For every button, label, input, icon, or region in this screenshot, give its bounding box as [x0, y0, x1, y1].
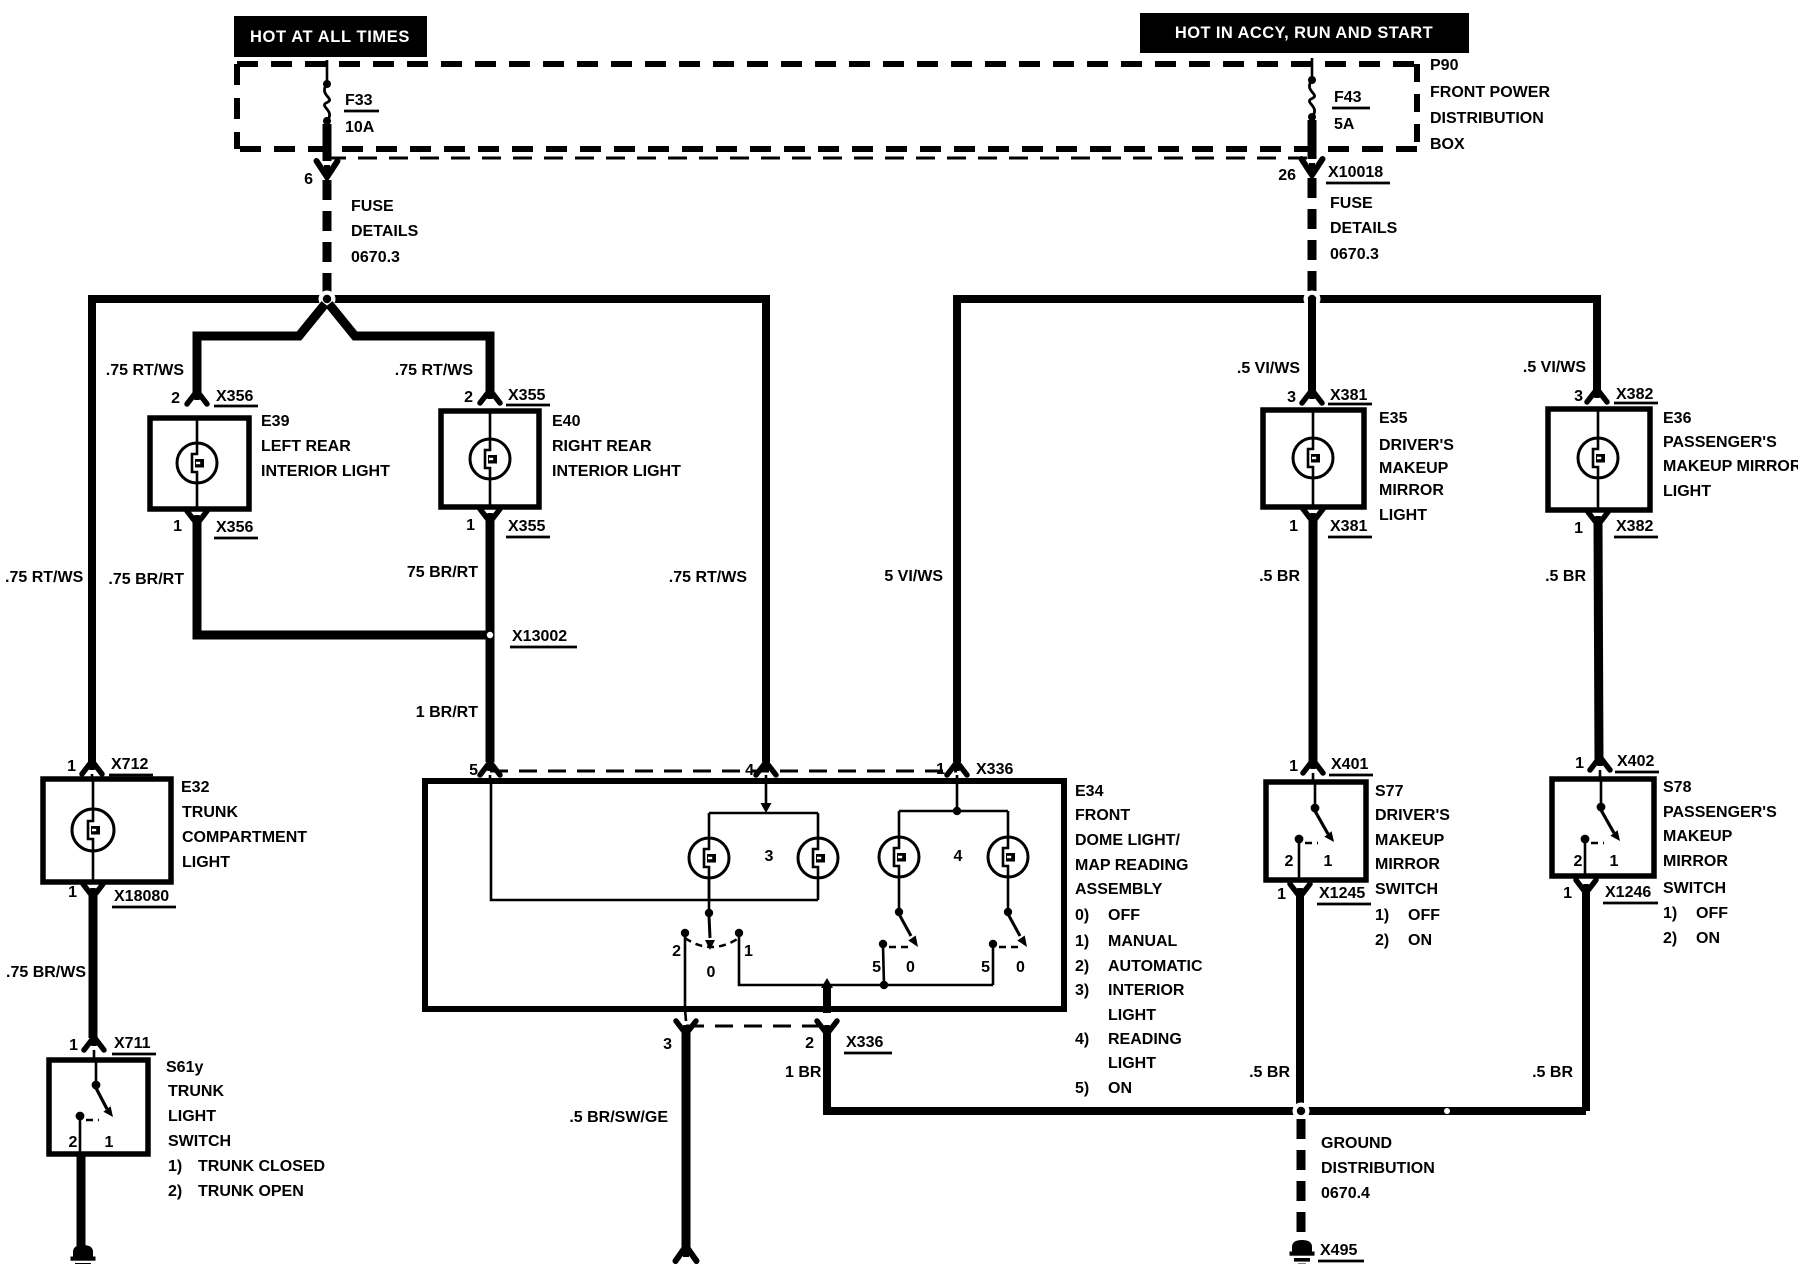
svg-text:X355: X355 — [508, 387, 545, 404]
svg-text:HOT AT ALL TIMES: HOT AT ALL TIMES — [250, 28, 410, 46]
svg-text:3): 3) — [1075, 982, 1089, 999]
svg-text:6: 6 — [304, 171, 313, 188]
wire drop to dome pin 1 — [953, 295, 961, 762]
wire reading sw1 drop — [883, 946, 884, 985]
svg-text:DETAILS: DETAILS — [351, 223, 419, 240]
ground distribution label — [1321, 1135, 1435, 1202]
switch S77 — [1266, 782, 1366, 880]
svg-text:3: 3 — [663, 1036, 672, 1053]
switch S61y — [49, 1060, 148, 1154]
svg-text:1): 1) — [1075, 933, 1089, 950]
node reading switch junction — [880, 981, 888, 989]
wire pin3 to bottom — [682, 1030, 691, 1250]
svg-text:MIRROR: MIRROR — [1375, 856, 1440, 873]
fuse details left label — [351, 198, 419, 266]
power label HOT IN ACCY, RUN AND START — [1140, 13, 1469, 53]
svg-text:1: 1 — [69, 1037, 78, 1054]
svg-text:X495: X495 — [1320, 1242, 1357, 1259]
svg-text:4: 4 — [745, 762, 754, 779]
svg-text:0670.3: 0670.3 — [351, 249, 400, 266]
svg-text:2: 2 — [69, 1134, 78, 1151]
svg-text:.75 RT/WS: .75 RT/WS — [395, 362, 474, 379]
svg-text:2): 2) — [1663, 930, 1677, 947]
svg-text:S61y: S61y — [166, 1059, 203, 1076]
dome light assembly E34 box — [425, 781, 1064, 1009]
svg-text:MANUAL: MANUAL — [1108, 933, 1178, 950]
E35 label — [1379, 410, 1454, 524]
svg-text:MAKEUP: MAKEUP — [1663, 828, 1733, 845]
F33 value label — [344, 92, 379, 136]
svg-text:2: 2 — [805, 1035, 814, 1052]
reading lamp 1 — [879, 837, 919, 877]
svg-text:TRUNK CLOSED: TRUNK CLOSED — [198, 1158, 325, 1175]
svg-text:PASSENGER'S: PASSENGER'S — [1663, 804, 1777, 821]
lamp E35 — [1263, 410, 1364, 507]
wire F33 lead-in — [326, 60, 329, 84]
svg-text:P90: P90 — [1430, 57, 1459, 74]
X336 pin 2 connector — [805, 1021, 892, 1053]
svg-text:X382: X382 — [1616, 518, 1653, 535]
svg-text:TRUNK: TRUNK — [168, 1083, 224, 1100]
dome lamp 1 — [689, 838, 729, 878]
svg-text:SWITCH: SWITCH — [168, 1133, 231, 1150]
svg-text:X10018: X10018 — [1328, 164, 1383, 181]
svg-text:E40: E40 — [552, 413, 581, 430]
connector X382 pin 3 — [1574, 386, 1658, 405]
svg-text:READING: READING — [1108, 1031, 1182, 1048]
connector X401 — [1289, 756, 1373, 782]
svg-text:X336: X336 — [976, 761, 1013, 778]
svg-text:2: 2 — [464, 389, 473, 406]
svg-text:LIGHT: LIGHT — [1663, 483, 1711, 500]
svg-text:.5 VI/WS: .5 VI/WS — [1523, 359, 1586, 376]
svg-text:E36: E36 — [1663, 410, 1692, 427]
pin 6 connector — [304, 161, 337, 188]
svg-text:X1245: X1245 — [1319, 885, 1365, 902]
fuse F33 — [323, 80, 331, 161]
svg-text:1: 1 — [1574, 520, 1583, 537]
node ground rail junction — [1293, 1103, 1310, 1120]
svg-text:RIGHT REAR: RIGHT REAR — [552, 438, 652, 455]
wire reading sw2 drop — [992, 944, 995, 985]
svg-text:X382: X382 — [1616, 386, 1653, 403]
svg-text:HOT IN ACCY, RUN AND START: HOT IN ACCY, RUN AND START — [1175, 24, 1433, 42]
svg-text:.5 VI/WS: .5 VI/WS — [1237, 360, 1300, 377]
wire E40 down to dome pin 5 — [486, 519, 495, 762]
X336 pin 3 connector — [663, 1009, 696, 1053]
svg-text:COMPARTMENT: COMPARTMENT — [182, 829, 307, 846]
connector X10018 dashed line — [327, 157, 1312, 160]
svg-text:1: 1 — [1563, 885, 1572, 902]
connector X336 top dashed line — [490, 770, 957, 773]
svg-text:DISTRIBUTION: DISTRIBUTION — [1430, 110, 1544, 127]
svg-text:MAKEUP: MAKEUP — [1379, 460, 1449, 477]
svg-text:F43: F43 — [1334, 89, 1362, 106]
svg-text:E32: E32 — [181, 779, 210, 796]
lamp E32 — [43, 779, 171, 882]
P90 label — [1430, 57, 1550, 153]
wire S78 to ground rail — [1582, 889, 1590, 1111]
X336 pin 1 connector — [936, 761, 1022, 781]
svg-text:X18080: X18080 — [114, 888, 169, 905]
wire E34 pin1 internal — [953, 781, 961, 815]
connector X18080 — [68, 884, 176, 907]
wire S61y to ground — [77, 1154, 86, 1247]
svg-text:MIRROR: MIRROR — [1379, 482, 1444, 499]
svg-text:X356: X356 — [216, 388, 253, 405]
svg-text:ON: ON — [1408, 932, 1432, 949]
svg-text:X381: X381 — [1330, 518, 1367, 535]
svg-text:PASSENGER'S: PASSENGER'S — [1663, 434, 1777, 451]
svg-text:ON: ON — [1696, 930, 1720, 947]
svg-text:MAKEUP: MAKEUP — [1375, 832, 1445, 849]
dome switch contact 2 — [681, 929, 689, 937]
wire drop to dome pin 4 — [762, 295, 770, 762]
svg-text:5: 5 — [872, 959, 881, 976]
svg-text:1 BR/RT: 1 BR/RT — [416, 704, 478, 721]
svg-text:26: 26 — [1278, 167, 1296, 184]
svg-text:X711: X711 — [114, 1035, 151, 1052]
connector X382 pin 1 — [1574, 512, 1658, 537]
svg-text:3: 3 — [765, 848, 774, 865]
wire left bus — [92, 295, 766, 303]
X336 pin 5 connector — [469, 762, 500, 781]
svg-text:1: 1 — [68, 884, 77, 901]
node splice marker — [1444, 1108, 1450, 1114]
svg-text:0670.4: 0670.4 — [1321, 1185, 1370, 1202]
svg-text:AUTOMATIC: AUTOMATIC — [1108, 958, 1203, 975]
wire fuse details right (dashed) — [1308, 178, 1317, 296]
lamp E36 — [1548, 409, 1650, 510]
svg-text:X1246: X1246 — [1605, 884, 1651, 901]
svg-text:1: 1 — [1575, 755, 1584, 772]
svg-text:DISTRIBUTION: DISTRIBUTION — [1321, 1160, 1435, 1177]
node junction left bus — [319, 291, 336, 308]
svg-text:MIRROR: MIRROR — [1663, 853, 1728, 870]
svg-text:.5 BR/SW/GE: .5 BR/SW/GE — [569, 1109, 668, 1126]
dome lamp 2 — [798, 838, 838, 878]
node tee to pin 2 — [821, 978, 833, 988]
connector X381 pin 3 — [1287, 387, 1372, 406]
svg-text:BOX: BOX — [1430, 136, 1465, 153]
wire left drop to E32 — [88, 295, 96, 765]
fuse F43 — [1308, 76, 1316, 159]
svg-text:1 BR: 1 BR — [785, 1064, 822, 1081]
svg-text:FRONT POWER: FRONT POWER — [1430, 84, 1550, 101]
svg-text:X13002: X13002 — [512, 628, 567, 645]
svg-text:X355: X355 — [508, 518, 545, 535]
E36 label — [1663, 410, 1798, 500]
E32 label — [181, 779, 307, 871]
connector X711 — [69, 1035, 156, 1060]
ground trunk switch — [73, 1245, 93, 1257]
svg-text:1): 1) — [1663, 905, 1677, 922]
svg-text:1: 1 — [466, 517, 475, 534]
svg-text:MAP READING: MAP READING — [1075, 857, 1189, 874]
X336 pin 4 connector — [745, 762, 776, 781]
pin 26 connector X10018 — [1278, 159, 1390, 184]
svg-text:X402: X402 — [1617, 753, 1654, 770]
svg-text:ASSEMBLY: ASSEMBLY — [1075, 881, 1163, 898]
svg-text:FUSE: FUSE — [351, 198, 394, 215]
connector X356 pin 2 — [171, 388, 258, 407]
wire S77 to ground rail — [1296, 893, 1304, 1111]
svg-text:.75 RT/WS: .75 RT/WS — [669, 569, 748, 586]
E34 label — [1075, 783, 1203, 1097]
connector X402 — [1575, 753, 1659, 779]
wire E34 dome top rail — [709, 812, 818, 815]
svg-text:5 VI/WS: 5 VI/WS — [884, 568, 943, 585]
reading lamp 2 — [988, 837, 1028, 877]
svg-text:LIGHT: LIGHT — [182, 854, 230, 871]
svg-text:TRUNK OPEN: TRUNK OPEN — [198, 1183, 304, 1200]
svg-text:LIGHT: LIGHT — [1108, 1007, 1156, 1024]
svg-text:1: 1 — [1289, 518, 1298, 535]
svg-text:.5 BR: .5 BR — [1545, 568, 1586, 585]
svg-text:2: 2 — [1285, 853, 1294, 870]
S78 label — [1663, 779, 1777, 947]
fuse details right label — [1330, 195, 1398, 263]
svg-text:2): 2) — [1075, 958, 1089, 975]
wire drop to E35 — [1308, 299, 1316, 393]
svg-text:1: 1 — [1277, 886, 1286, 903]
svg-text:.5 BR: .5 BR — [1249, 1064, 1290, 1081]
svg-text:SWITCH: SWITCH — [1375, 881, 1438, 898]
svg-text:5A: 5A — [1334, 116, 1355, 133]
S77 label — [1375, 783, 1450, 949]
svg-text:0: 0 — [1016, 959, 1025, 976]
svg-text:5: 5 — [469, 762, 478, 779]
dome switch contact 1 — [735, 929, 743, 937]
svg-text:1: 1 — [1610, 853, 1619, 870]
svg-text:5: 5 — [981, 959, 990, 976]
svg-text:LEFT REAR: LEFT REAR — [261, 438, 351, 455]
svg-text:1: 1 — [67, 758, 76, 775]
svg-text:S77: S77 — [1375, 783, 1404, 800]
svg-text:2: 2 — [672, 943, 681, 960]
svg-text:DETAILS: DETAILS — [1330, 220, 1398, 237]
svg-text:10A: 10A — [345, 119, 375, 136]
svg-text:.75 RT/WS: .75 RT/WS — [5, 569, 84, 586]
svg-text:0: 0 — [707, 964, 716, 981]
E40 label — [552, 413, 681, 480]
wire F43 lead-in — [1311, 58, 1314, 80]
node X13002 — [487, 628, 577, 647]
wire contact2 to pin3 — [684, 937, 687, 1011]
S61y label — [166, 1059, 325, 1200]
P90 front power distribution box (dashed) — [237, 64, 1417, 149]
svg-text:F33: F33 — [345, 92, 373, 109]
svg-text:2: 2 — [1574, 853, 1583, 870]
svg-text:INTERIOR LIGHT: INTERIOR LIGHT — [552, 463, 681, 480]
svg-text:1: 1 — [744, 943, 753, 960]
svg-text:4): 4) — [1075, 1031, 1089, 1048]
connector X356 pin 1 — [173, 511, 258, 538]
svg-text:OFF: OFF — [1696, 905, 1728, 922]
svg-text:1: 1 — [173, 518, 182, 535]
svg-text:1): 1) — [1375, 907, 1389, 924]
wire ground distribution (dashed) — [1297, 1119, 1306, 1240]
connector bottom page exit — [676, 1246, 697, 1261]
svg-text:INTERIOR LIGHT: INTERIOR LIGHT — [261, 463, 390, 480]
svg-text:.5 BR: .5 BR — [1532, 1064, 1573, 1081]
svg-text:DOME LIGHT/: DOME LIGHT/ — [1075, 832, 1180, 849]
connector X712 — [67, 756, 153, 779]
wire drop to E36 — [1593, 295, 1601, 393]
svg-text:GROUND: GROUND — [1321, 1135, 1392, 1152]
wire E39 to X13002 — [197, 521, 490, 635]
wire right bus — [957, 295, 1597, 303]
svg-text:OFF: OFF — [1108, 907, 1140, 924]
svg-text:1: 1 — [1289, 758, 1298, 775]
svg-text:X381: X381 — [1330, 387, 1367, 404]
svg-text:.75 RT/WS: .75 RT/WS — [106, 362, 185, 379]
svg-text:2): 2) — [1375, 932, 1389, 949]
svg-text:FUSE: FUSE — [1330, 195, 1373, 212]
dome switch common node — [705, 878, 713, 917]
wire pin2 to ground rail — [827, 1030, 1586, 1111]
svg-text:FRONT: FRONT — [1075, 807, 1130, 824]
node junction right bus — [1304, 291, 1321, 308]
wire E36 to X402 — [1598, 522, 1599, 762]
connector X1246 — [1563, 880, 1658, 903]
wire contact1 to inner rail — [739, 937, 993, 985]
svg-text:2: 2 — [171, 390, 180, 407]
wire E34 reading top rail — [899, 810, 1008, 813]
wire E35 to X401 — [1309, 519, 1318, 763]
svg-text:.75 BR/RT: .75 BR/RT — [108, 571, 184, 588]
svg-text:X356: X356 — [216, 519, 253, 536]
svg-text:5): 5) — [1075, 1080, 1089, 1097]
svg-text:E34: E34 — [1075, 783, 1104, 800]
svg-text:X336: X336 — [846, 1034, 883, 1051]
svg-text:1): 1) — [168, 1158, 182, 1175]
F43 value label — [1332, 89, 1370, 133]
svg-text:3: 3 — [1287, 389, 1296, 406]
wire Y-split to E40 — [329, 304, 490, 393]
switch S78 — [1552, 779, 1654, 876]
wire E34 pin5 internal — [491, 781, 818, 900]
svg-text:LIGHT: LIGHT — [1379, 507, 1427, 524]
svg-text:TRUNK: TRUNK — [182, 804, 238, 821]
svg-text:DRIVER'S: DRIVER'S — [1379, 437, 1454, 454]
dome switch arm — [705, 916, 715, 950]
svg-text:DRIVER'S: DRIVER'S — [1375, 807, 1450, 824]
svg-text:OFF: OFF — [1408, 907, 1440, 924]
svg-text:3: 3 — [1574, 388, 1583, 405]
svg-text:ON: ON — [1108, 1080, 1132, 1097]
svg-text:0670.3: 0670.3 — [1330, 246, 1379, 263]
wire E32 to X711 — [89, 893, 98, 1038]
svg-text:SWITCH: SWITCH — [1663, 880, 1726, 897]
svg-text:MAKEUP MIRROR: MAKEUP MIRROR — [1663, 458, 1798, 475]
svg-text:LIGHT: LIGHT — [1108, 1055, 1156, 1072]
wire fuse details left (dashed) — [323, 180, 332, 296]
svg-text:S78: S78 — [1663, 779, 1692, 796]
svg-text:1: 1 — [936, 761, 945, 778]
connector X355 pin 1 — [466, 509, 550, 537]
wire pin2 internal — [823, 985, 831, 1013]
svg-text:E39: E39 — [261, 413, 290, 430]
svg-text:75 BR/RT: 75 BR/RT — [407, 564, 478, 581]
svg-text:1: 1 — [1324, 853, 1333, 870]
connector X355 pin 2 — [464, 387, 550, 406]
svg-text:2): 2) — [168, 1183, 182, 1200]
svg-text:X401: X401 — [1331, 756, 1368, 773]
lamp E40 — [441, 411, 539, 507]
svg-text:E35: E35 — [1379, 410, 1408, 427]
svg-text:X712: X712 — [111, 756, 148, 773]
svg-text:.75 BR/WS: .75 BR/WS — [6, 964, 86, 981]
svg-text:0: 0 — [906, 959, 915, 976]
E39 label — [261, 413, 390, 480]
reading switch 1 — [872, 877, 918, 976]
connector X336 bottom dashed line — [686, 1025, 828, 1028]
svg-text:4: 4 — [954, 848, 963, 865]
svg-text:.5 BR: .5 BR — [1259, 568, 1300, 585]
svg-text:INTERIOR: INTERIOR — [1108, 982, 1185, 999]
lamp E39 — [150, 418, 249, 509]
reading switch 2 — [981, 877, 1027, 976]
power label HOT AT ALL TIMES — [234, 16, 427, 57]
wire Y-split to E39 — [197, 304, 325, 395]
connector X381 pin 1 — [1289, 509, 1372, 537]
dome switch labels — [672, 943, 753, 981]
svg-text:1: 1 — [105, 1134, 114, 1151]
dome switch dashed arc — [685, 938, 739, 947]
wire E34 pin4 internal — [761, 781, 772, 813]
connector X1245 — [1277, 884, 1371, 904]
svg-text:LIGHT: LIGHT — [168, 1108, 216, 1125]
svg-text:0): 0) — [1075, 907, 1089, 924]
ground X495 — [1290, 1240, 1365, 1264]
